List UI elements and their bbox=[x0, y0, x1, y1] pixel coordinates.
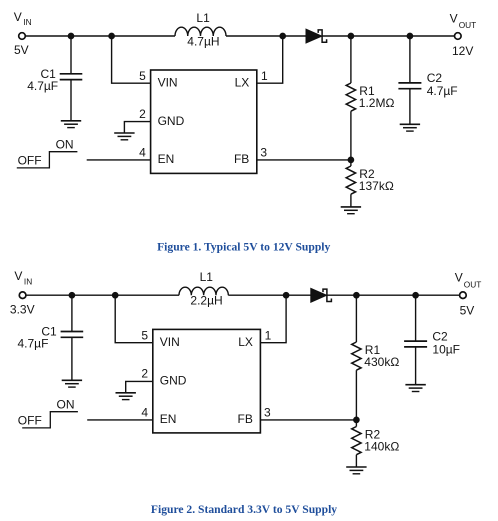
pin number 4 bbox=[139, 146, 146, 160]
svg-text:ON: ON bbox=[56, 138, 74, 152]
svg-text:4: 4 bbox=[139, 146, 146, 160]
pin number 5 bbox=[141, 329, 148, 343]
svg-text:1: 1 bbox=[265, 329, 272, 343]
label R1 bbox=[365, 343, 381, 357]
junction VIN-pin/rail bbox=[112, 292, 118, 298]
wire rail to C2 top plate bbox=[415, 295, 417, 341]
junction LX/rail bbox=[283, 292, 289, 298]
svg-text:IN: IN bbox=[24, 276, 32, 286]
wire rail to C2 top plate bbox=[409, 36, 411, 83]
node figure-1 input terminal VIN bbox=[19, 33, 26, 40]
svg-text:OUT: OUT bbox=[464, 279, 482, 289]
pin label EN bbox=[158, 152, 175, 166]
inductor L1 2.2&#181;H bbox=[179, 287, 228, 295]
junction R1/rail bbox=[354, 292, 360, 298]
pin label LX bbox=[235, 75, 250, 89]
value label 137k&#937; bbox=[359, 179, 394, 193]
capacitor C2 10&#181;F bbox=[404, 341, 427, 347]
node figure-2 input terminal VIN bbox=[19, 292, 26, 299]
caption Figure 1 bbox=[157, 241, 330, 254]
svg-text:5V: 5V bbox=[460, 303, 475, 317]
label C2 bbox=[427, 71, 443, 85]
ground at GND pin bbox=[114, 133, 134, 140]
wire C2 bottom plate to ground bbox=[415, 347, 417, 385]
diode D1 (Schottky) bbox=[311, 288, 332, 302]
value label 2.2&#181;H bbox=[190, 294, 222, 308]
pin label FB bbox=[238, 412, 253, 426]
wire FB node to R2 bbox=[350, 160, 352, 166]
value label 1.2M&#937; bbox=[359, 96, 395, 110]
wire C1 bottom plate to ground bbox=[71, 337, 73, 380]
svg-text:4.7µF: 4.7µF bbox=[27, 79, 58, 93]
wire LX pin 1 to rail bbox=[260, 296, 286, 343]
svg-text:5: 5 bbox=[139, 69, 146, 83]
value label 4.7&#181;F bbox=[427, 84, 458, 98]
capacitor C1 4.7&#181;F bbox=[60, 74, 83, 80]
wire input rail (terminal to L1) bbox=[25, 35, 175, 37]
ground below C2 bbox=[405, 385, 425, 392]
value label 140k&#937; bbox=[364, 440, 399, 454]
wire FB pin 3 to divider node bbox=[257, 159, 351, 161]
svg-text:OFF: OFF bbox=[18, 413, 42, 427]
svg-text:4.7µF: 4.7µF bbox=[18, 337, 49, 351]
svg-text:GND: GND bbox=[160, 374, 187, 388]
svg-text:LX: LX bbox=[235, 75, 250, 89]
svg-text:V: V bbox=[14, 269, 22, 283]
pin number 3 bbox=[264, 406, 271, 420]
pin number 1 bbox=[261, 69, 268, 83]
wire C1 bottom plate to ground bbox=[70, 80, 72, 121]
wire rail to R1 bbox=[355, 295, 357, 342]
svg-text:2.2µH: 2.2µH bbox=[190, 294, 222, 308]
pin number 5 bbox=[139, 69, 146, 83]
wire R1 to FB node bbox=[350, 111, 352, 160]
svg-text:10µF: 10µF bbox=[432, 342, 460, 356]
svg-text:IN: IN bbox=[23, 17, 31, 27]
svg-text:12V: 12V bbox=[452, 44, 473, 58]
pin label FB bbox=[234, 152, 249, 166]
wire R2 to ground bbox=[355, 455, 357, 467]
label output voltage 5V bbox=[460, 303, 475, 317]
wire R1 to FB node bbox=[355, 370, 357, 420]
pin label EN bbox=[160, 412, 177, 426]
enable step waveform OFF/ON bbox=[17, 152, 78, 168]
ground below C2 bbox=[400, 124, 420, 131]
svg-text:Figure 1. Typical 5V to 12V Su: Figure 1. Typical 5V to 12V Supply bbox=[157, 241, 330, 254]
svg-text:4.7µH: 4.7µH bbox=[187, 34, 219, 48]
svg-text:2: 2 bbox=[139, 107, 146, 121]
junction C1/rail bbox=[69, 292, 75, 298]
svg-text:OUT: OUT bbox=[459, 20, 477, 30]
pin number 3 bbox=[260, 146, 267, 160]
label V_OUT bbox=[450, 11, 477, 30]
value label 430k&#937; bbox=[364, 355, 399, 369]
junction C2/rail bbox=[407, 33, 413, 39]
pin number 2 bbox=[139, 107, 146, 121]
svg-text:V: V bbox=[455, 271, 463, 285]
resistor R1 1.2M&#937; bbox=[346, 83, 355, 111]
pin label GND bbox=[160, 374, 187, 388]
pin label VIN bbox=[158, 75, 178, 89]
label C1 bbox=[40, 67, 56, 81]
wire rail (L1 to diode anode) bbox=[228, 294, 310, 296]
diode D1 (Schottky) bbox=[306, 29, 327, 43]
svg-text:4.7µF: 4.7µF bbox=[427, 84, 458, 98]
wire GND pin 2 to ground bbox=[126, 381, 153, 392]
label input voltage 3.3V bbox=[10, 302, 35, 316]
wire rail to VIN pin 5 bbox=[112, 36, 151, 83]
label ON bbox=[56, 138, 74, 152]
svg-text:137kΩ: 137kΩ bbox=[359, 179, 394, 193]
capacitor C2 4.7&#181;F bbox=[398, 83, 421, 89]
enable step waveform OFF/ON bbox=[22, 412, 78, 428]
svg-text:5: 5 bbox=[141, 329, 148, 343]
svg-text:Figure 2. Standard 3.3V to 5V: Figure 2. Standard 3.3V to 5V Supply bbox=[151, 503, 337, 516]
label R1 bbox=[359, 84, 375, 98]
label V_OUT bbox=[455, 271, 482, 290]
pin number 1 bbox=[265, 329, 272, 343]
svg-text:EN: EN bbox=[160, 412, 177, 426]
node figure-1 output terminal VOUT bbox=[455, 33, 462, 40]
wire rail (diode cathode to output terminal) bbox=[327, 294, 460, 296]
wire rail (diode cathode to output terminal) bbox=[322, 35, 455, 37]
junction VIN-pin/rail bbox=[109, 33, 115, 39]
svg-text:430kΩ: 430kΩ bbox=[364, 355, 399, 369]
op-amp/regulator U1 (boost converter IC) bbox=[153, 329, 261, 433]
svg-text:GND: GND bbox=[158, 114, 185, 128]
junction FB/divider node bbox=[348, 157, 354, 163]
ground below R2 bbox=[341, 207, 361, 214]
label L1 bbox=[196, 11, 210, 25]
label ON bbox=[57, 398, 75, 412]
label V_IN bbox=[14, 10, 32, 27]
svg-text:V: V bbox=[14, 10, 22, 24]
wire to EN pin 4 bbox=[87, 159, 151, 161]
label C2 bbox=[432, 329, 448, 343]
caption Figure 2 bbox=[151, 503, 337, 516]
svg-text:3: 3 bbox=[264, 406, 271, 420]
wire rail to R1 bbox=[350, 36, 352, 83]
junction R1/rail bbox=[348, 33, 354, 39]
svg-text:C2: C2 bbox=[432, 329, 448, 343]
wire FB pin 3 to divider node bbox=[260, 419, 356, 421]
wire rail (L1 to diode anode) bbox=[226, 35, 306, 37]
svg-text:2: 2 bbox=[141, 367, 148, 381]
label L1 bbox=[200, 270, 214, 284]
ground below C1 bbox=[61, 121, 81, 128]
svg-text:5V: 5V bbox=[14, 43, 29, 57]
label OFF bbox=[18, 153, 42, 167]
svg-text:140kΩ: 140kΩ bbox=[364, 440, 399, 454]
svg-text:ON: ON bbox=[57, 398, 75, 412]
svg-text:VIN: VIN bbox=[158, 75, 178, 89]
node figure-2 output terminal VOUT bbox=[460, 292, 467, 299]
wire rail to VIN pin 5 bbox=[115, 295, 153, 343]
value label 4.7&#181;F bbox=[18, 337, 49, 351]
svg-text:3: 3 bbox=[260, 146, 267, 160]
resistor R2 140k&#937; bbox=[352, 427, 361, 455]
svg-text:L1: L1 bbox=[200, 270, 214, 284]
pin label GND bbox=[158, 114, 185, 128]
value label 4.7&#181;H bbox=[187, 34, 219, 48]
label input voltage 5V bbox=[14, 43, 29, 57]
resistor R2 137k&#937; bbox=[346, 166, 355, 194]
pin label LX bbox=[238, 335, 253, 349]
svg-text:OFF: OFF bbox=[18, 153, 42, 167]
ground at GND pin bbox=[116, 393, 136, 400]
op-amp/regulator U1 (boost converter IC) bbox=[151, 70, 257, 173]
wire input rail (terminal to L1) bbox=[26, 294, 179, 296]
svg-text:C2: C2 bbox=[427, 71, 443, 85]
resistor R1 430k&#937; bbox=[352, 342, 361, 370]
svg-text:L1: L1 bbox=[196, 11, 210, 25]
junction LX/rail bbox=[280, 33, 286, 39]
svg-text:FB: FB bbox=[238, 412, 253, 426]
junction C1/rail bbox=[68, 33, 74, 39]
value label 4.7&#181;F bbox=[27, 79, 58, 93]
label OFF bbox=[18, 413, 42, 427]
label R2 bbox=[365, 427, 381, 441]
value label 10&#181;F bbox=[432, 342, 460, 356]
wire rail to C1 top plate bbox=[70, 36, 72, 74]
wire rail to C1 top plate bbox=[71, 295, 73, 331]
wire R2 to ground bbox=[350, 194, 352, 207]
svg-text:4: 4 bbox=[141, 406, 148, 420]
wire GND pin 2 to ground bbox=[124, 122, 150, 133]
pin label VIN bbox=[160, 335, 180, 349]
inductor L1 4.7&#181;H bbox=[175, 27, 226, 36]
svg-text:V: V bbox=[450, 11, 458, 25]
svg-text:1: 1 bbox=[261, 69, 268, 83]
wire to EN pin 4 bbox=[87, 419, 153, 421]
svg-text:1.2MΩ: 1.2MΩ bbox=[359, 96, 395, 110]
svg-text:LX: LX bbox=[238, 335, 253, 349]
ground below C1 bbox=[62, 380, 82, 387]
pin number 2 bbox=[141, 367, 148, 381]
capacitor C1 4.7&#181;F bbox=[61, 332, 84, 338]
label C1 bbox=[41, 325, 57, 339]
label output voltage 12V bbox=[452, 44, 473, 58]
wire LX pin 1 to rail bbox=[257, 37, 283, 83]
svg-text:FB: FB bbox=[234, 152, 249, 166]
wire C2 bottom plate to ground bbox=[409, 89, 411, 125]
svg-text:3.3V: 3.3V bbox=[10, 302, 35, 316]
junction FB/divider node bbox=[354, 417, 360, 423]
ground below R2 bbox=[346, 467, 366, 474]
wire FB node to R2 bbox=[355, 420, 357, 427]
label R2 bbox=[359, 167, 375, 181]
pin number 4 bbox=[141, 406, 148, 420]
svg-text:VIN: VIN bbox=[160, 335, 180, 349]
svg-text:EN: EN bbox=[158, 152, 175, 166]
junction C2/rail bbox=[413, 292, 419, 298]
label V_IN bbox=[14, 269, 32, 286]
